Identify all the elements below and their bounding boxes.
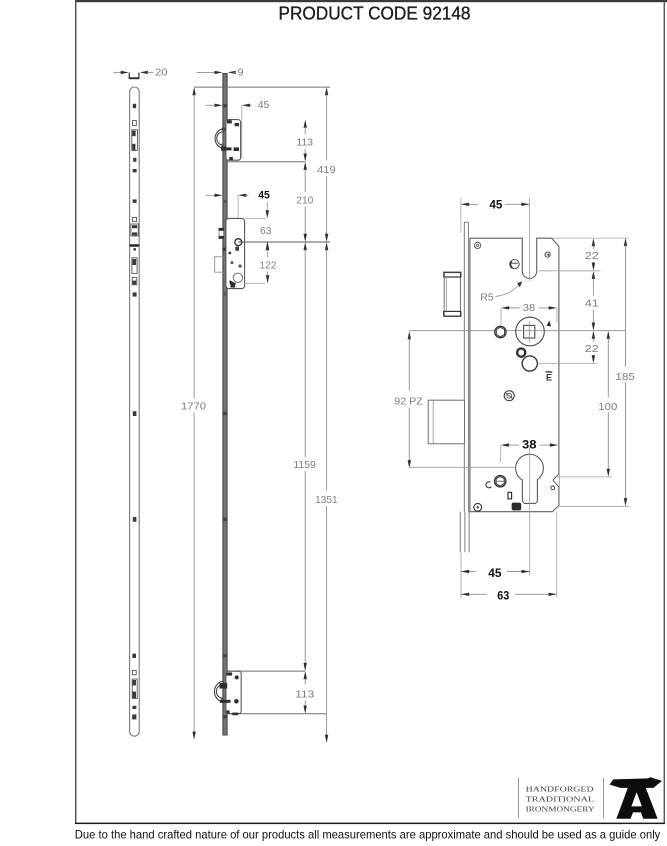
handle screw hex xyxy=(495,326,506,337)
faceplate screw dot xyxy=(132,654,136,658)
dimension 38 upper xyxy=(509,307,520,309)
faceplate top hook slot xyxy=(132,130,138,151)
svg-text:1351: 1351 xyxy=(315,495,338,506)
svg-text:R5: R5 xyxy=(480,293,494,304)
faceplate screw dot xyxy=(133,517,137,522)
small arrow mark right of spindle xyxy=(547,321,552,327)
faceplate channel cross-section (top view) xyxy=(129,73,139,79)
svg-text:45: 45 xyxy=(488,566,502,580)
gearbox spindle xyxy=(235,239,242,246)
svg-text:1770: 1770 xyxy=(181,402,206,413)
faceplate screw dot xyxy=(133,158,136,162)
dimension 92 PZ xyxy=(408,331,411,339)
slot centreline xyxy=(529,198,531,281)
svg-text:1159: 1159 xyxy=(293,460,316,471)
logo separator left xyxy=(518,778,520,819)
svg-text:E: E xyxy=(546,373,552,383)
deadbolt (case) xyxy=(428,400,464,444)
cylinder centreline xyxy=(529,448,531,576)
svg-text:185: 185 xyxy=(615,372,635,383)
dimension 45 (case top) xyxy=(460,198,462,233)
logo separator right xyxy=(603,778,605,819)
case small hole top right xyxy=(545,252,550,257)
gearbox top reference ext xyxy=(245,217,266,219)
dimension 45 (top hook backset) xyxy=(206,104,214,106)
hex screw below spindle xyxy=(517,348,526,357)
cam block xyxy=(512,503,522,511)
middle screw xyxy=(504,391,514,401)
faceplate screw dot xyxy=(133,411,137,416)
faceplate screw dash xyxy=(133,292,137,296)
case screw below slot xyxy=(510,260,519,269)
svg-text:20: 20 xyxy=(155,68,168,79)
faceplate screw hole xyxy=(133,104,136,108)
top hook lock screws xyxy=(227,120,232,123)
lock case body xyxy=(470,238,559,512)
faceplate small cutout xyxy=(133,217,137,221)
faceplate joint bar xyxy=(130,244,140,247)
svg-text:45: 45 xyxy=(489,197,502,211)
bottom hook bolt xyxy=(214,681,223,701)
svg-text:HANDFORGED: HANDFORGED xyxy=(526,784,595,793)
bottom hook lock case xyxy=(226,671,241,713)
dimension 100 xyxy=(607,331,610,339)
faceplate front view (long strip) xyxy=(130,87,140,736)
latch bolt (case) xyxy=(444,273,460,317)
anvil logo xyxy=(610,777,662,819)
svg-text:Due to the hand crafted nature: Due to the hand crafted nature of our pr… xyxy=(75,829,661,841)
faceplate latch cutout xyxy=(131,224,138,236)
spindle follower xyxy=(516,317,545,346)
centreline across spindle follower xyxy=(516,330,544,332)
svg-text:38: 38 xyxy=(523,303,536,314)
top reference line xyxy=(194,86,330,88)
border frame left xyxy=(75,0,76,823)
case faceplate xyxy=(463,222,465,512)
svg-text:TRADITIONAL: TRADITIONAL xyxy=(526,794,595,803)
svg-text:113: 113 xyxy=(295,689,314,700)
dimension 45 (case bottom) xyxy=(460,553,462,599)
dimension 1770 (overall length) xyxy=(192,87,195,95)
svg-text:PRODUCT CODE 92148: PRODUCT CODE 92148 xyxy=(279,3,471,24)
faceplate small cutout xyxy=(133,121,137,126)
spindle reference line through gearbox xyxy=(238,241,244,243)
gearbox spindle extension line xyxy=(237,195,239,240)
faceplate screw dash xyxy=(133,199,137,202)
dimension chain 22/41/22 right xyxy=(552,237,629,239)
case faceplate lower xyxy=(459,512,461,553)
dimension chain 113/210/1159/113 xyxy=(304,120,307,128)
faceplate screw dash xyxy=(132,706,136,709)
euro cylinder hole xyxy=(516,454,544,503)
dimension 9 (faceplate thickness, side view) xyxy=(197,71,216,73)
top hook lock case xyxy=(226,120,241,161)
dimension 63 (case bottom) xyxy=(461,593,487,595)
small rect part xyxy=(508,492,512,499)
gearbox deadbolt outline xyxy=(215,257,224,272)
faceplate cylinder cutout xyxy=(132,277,137,284)
faceplate deadbolt cutout xyxy=(132,258,137,274)
svg-text:41: 41 xyxy=(585,299,599,310)
gearbox 122 reference ext xyxy=(245,283,265,285)
dimension chain 419/1351 xyxy=(325,87,328,95)
side strip screw ticks xyxy=(223,104,228,107)
dimension 185 xyxy=(624,238,627,246)
svg-text:100: 100 xyxy=(598,402,617,413)
svg-text:45: 45 xyxy=(258,100,270,111)
dimension 38 lower xyxy=(508,444,519,446)
svg-text:113: 113 xyxy=(297,137,314,148)
hex screw left of cylinder xyxy=(495,476,506,487)
gearbox latch bolt xyxy=(219,228,224,238)
bottom hook lock screws xyxy=(227,672,233,675)
bottom hook bottom reference line xyxy=(226,713,327,715)
faceplate bottom hook slot xyxy=(132,679,137,698)
border frame top xyxy=(75,0,667,2)
svg-text:45: 45 xyxy=(258,190,270,202)
svg-text:122: 122 xyxy=(259,261,276,272)
svg-text:419: 419 xyxy=(317,165,336,176)
c-shaped mark xyxy=(486,482,491,488)
dimension 20 (faceplate width, top view) xyxy=(113,71,121,73)
gearbox small parts xyxy=(235,247,239,251)
circle below spindle xyxy=(522,356,537,371)
tiny hole right xyxy=(551,486,555,490)
top hook centre reference line xyxy=(227,161,305,163)
faceplate screw dot xyxy=(132,714,136,719)
svg-text:9: 9 xyxy=(238,68,244,79)
bottom hook top reference line xyxy=(227,670,305,672)
bottom-left screw xyxy=(474,503,482,511)
svg-text:92 PZ: 92 PZ xyxy=(394,397,423,408)
svg-text:22: 22 xyxy=(585,344,599,355)
svg-text:22: 22 xyxy=(585,251,599,262)
case right edge notch xyxy=(553,474,559,487)
main centreline xyxy=(409,330,625,332)
gearbox cylinder xyxy=(233,273,242,282)
dimension 122 (gearbox) xyxy=(266,242,269,250)
top hook bolt xyxy=(215,129,223,148)
dimension 45 (gearbox backset) xyxy=(206,194,214,196)
faceplate small cutout xyxy=(132,670,136,674)
dimension 63 (gearbox) xyxy=(266,202,268,210)
faceplate side view (vertical bar) xyxy=(223,74,227,736)
svg-text:210: 210 xyxy=(296,195,313,206)
gearbox case xyxy=(226,218,245,288)
footer rule xyxy=(75,823,665,825)
faceplate screw dash xyxy=(133,169,137,172)
top hook extension line xyxy=(241,105,243,158)
gearbox spindle reference line xyxy=(239,241,331,243)
svg-text:IRONMONGERY: IRONMONGERY xyxy=(526,805,596,814)
border frame right xyxy=(664,0,665,823)
case top-left screw xyxy=(475,242,481,248)
svg-text:63: 63 xyxy=(260,226,272,237)
svg-text:63: 63 xyxy=(497,589,509,603)
